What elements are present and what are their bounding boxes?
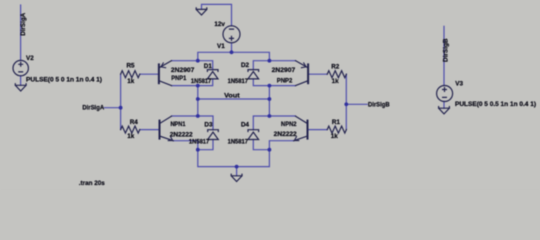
svg-text:Vout: Vout [224, 92, 240, 99]
svg-text:1N5817: 1N5817 [189, 138, 210, 145]
svg-text:PULSE(0 5 0 1n 1n 0.4 1): PULSE(0 5 0 1n 1n 0.4 1) [26, 76, 102, 83]
svg-text:2N2907: 2N2907 [272, 67, 296, 74]
svg-text:1k: 1k [332, 78, 340, 85]
svg-text:D4: D4 [241, 121, 250, 128]
svg-text:V3: V3 [455, 81, 463, 88]
svg-text:DirSigB: DirSigB [443, 38, 450, 62]
svg-text:PULSE(0 5 0.5 1n 1n 0.4 1): PULSE(0 5 0.5 1n 1n 0.4 1) [455, 101, 536, 108]
svg-text:1N5817: 1N5817 [228, 78, 249, 85]
svg-text:2N2907: 2N2907 [171, 67, 195, 74]
svg-text:R5: R5 [127, 62, 136, 69]
svg-text:R4: R4 [130, 119, 139, 126]
svg-text:NPN1: NPN1 [171, 121, 186, 128]
svg-text:1k: 1k [127, 78, 135, 85]
svg-text:2N2222: 2N2222 [170, 131, 193, 138]
svg-text:DirSigB: DirSigB [368, 101, 390, 108]
svg-text:PNP2: PNP2 [277, 78, 293, 85]
svg-text:V2: V2 [26, 55, 34, 62]
svg-text:V1: V1 [217, 43, 225, 50]
svg-text:D2: D2 [241, 62, 250, 69]
svg-text:1k: 1k [127, 133, 135, 140]
svg-text:PNP1: PNP1 [171, 75, 186, 82]
svg-text:D3: D3 [204, 121, 213, 128]
svg-text:1N5817: 1N5817 [191, 78, 212, 85]
svg-text:R1: R1 [332, 119, 341, 126]
svg-text:.tran 20s: .tran 20s [79, 180, 105, 187]
svg-text:D1: D1 [204, 63, 213, 70]
svg-text:DirSigA: DirSigA [20, 12, 27, 35]
svg-text:R2: R2 [331, 63, 340, 70]
svg-text:NPN2: NPN2 [281, 121, 297, 128]
svg-text:1N5817: 1N5817 [228, 138, 249, 145]
svg-text:2N2222: 2N2222 [274, 131, 298, 138]
svg-text:DirSigA: DirSigA [82, 105, 104, 112]
svg-text:1k: 1k [331, 133, 339, 140]
svg-text:12v: 12v [214, 21, 225, 28]
